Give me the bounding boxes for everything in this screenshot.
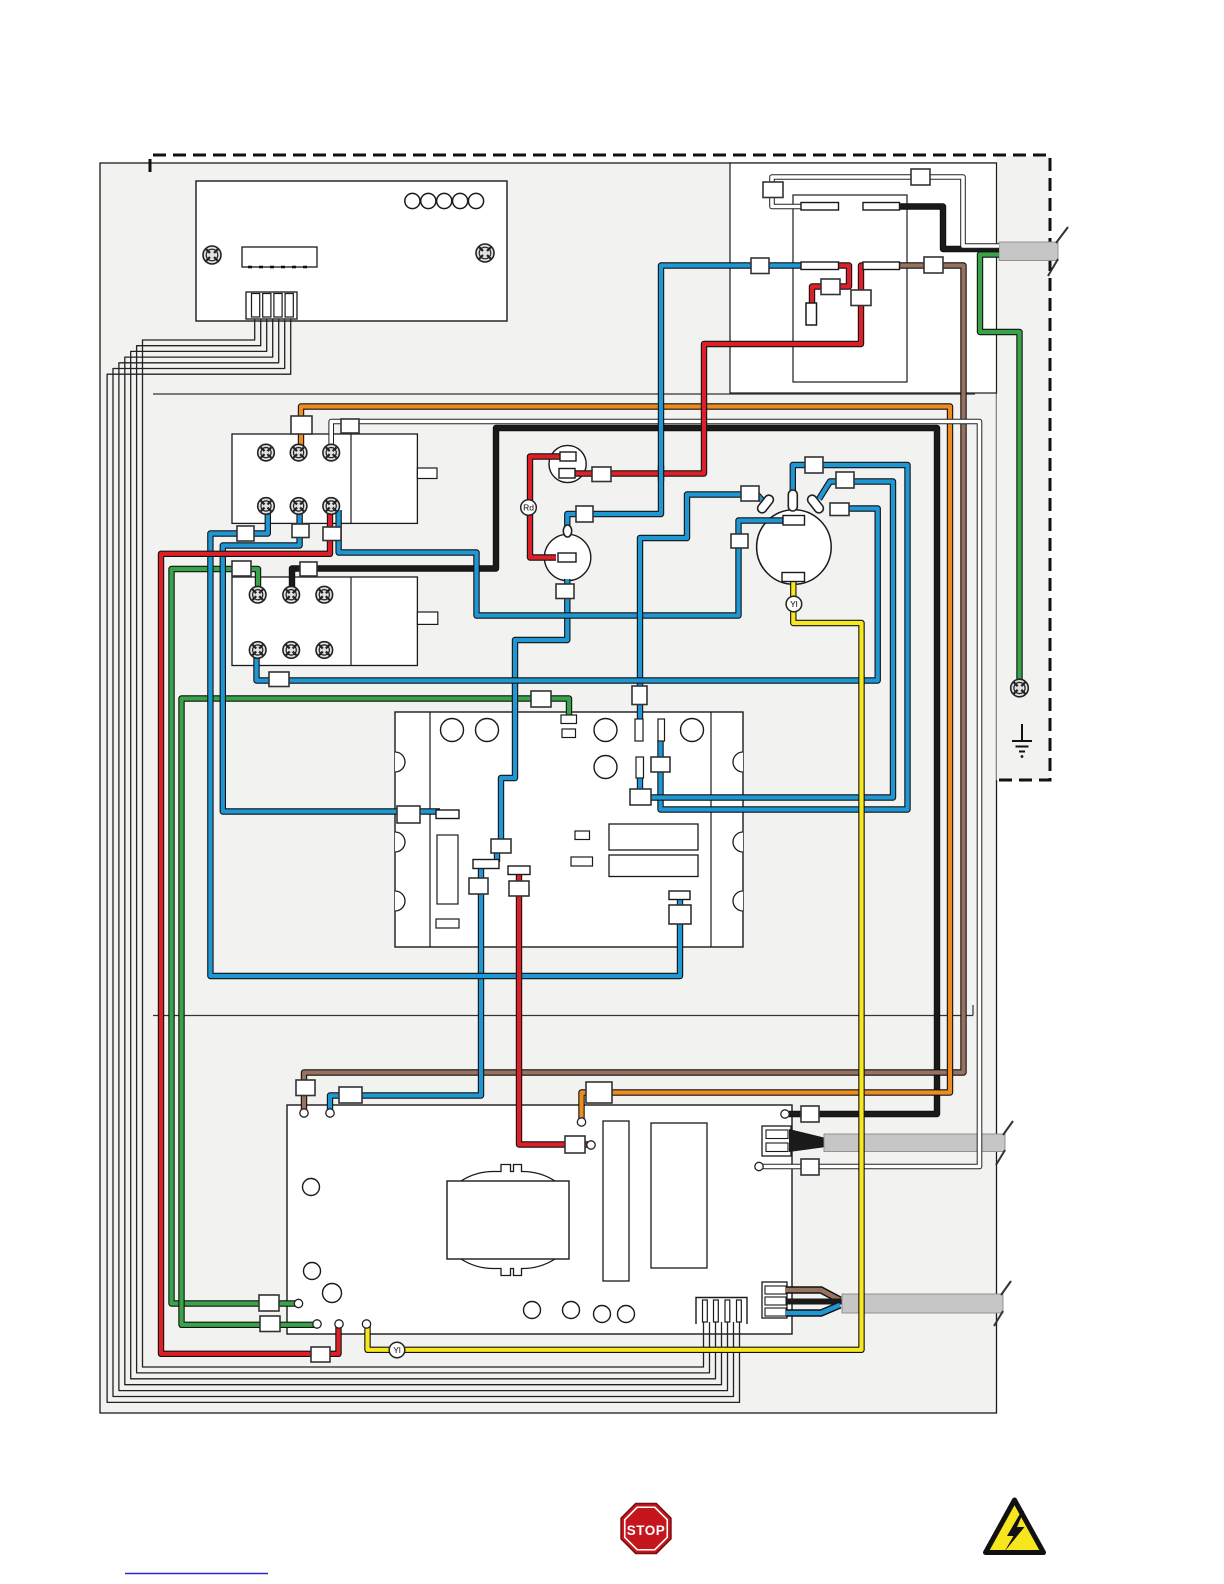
svg-text:Rd: Rd bbox=[523, 503, 534, 513]
svg-text:Yl: Yl bbox=[393, 1345, 401, 1355]
svg-text:STOP: STOP bbox=[627, 1523, 666, 1538]
svg-text:Yl: Yl bbox=[790, 599, 798, 609]
